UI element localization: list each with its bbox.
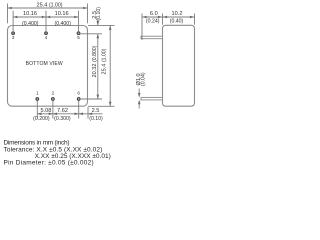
svg-text:6: 6	[77, 91, 80, 96]
dimension 10.16 arrows	[13, 16, 78, 19]
top edge right extension line	[88, 24, 115, 26]
pin 2 circle	[52, 98, 55, 101]
dimension 2.5 arrows	[97, 21, 100, 38]
pin5 row right extension line	[80, 33, 102, 35]
svg-text:10.2: 10.2	[172, 11, 183, 17]
pin 1 circle	[36, 98, 39, 101]
dimension 2.5 top right: upper tail	[97, 20, 99, 100]
dimension 20.32 arrows	[97, 95, 100, 99]
svg-text:(0.200): (0.200)	[33, 116, 50, 122]
side view top dims extension lines	[142, 14, 195, 41]
pin diameter dim line upper	[138, 89, 140, 109]
svg-text:20.32 (0.800): 20.32 (0.800)	[92, 45, 98, 77]
side view body	[163, 25, 195, 106]
svg-text:5.08: 5.08	[40, 108, 51, 114]
dimension 25.4 height dim line	[109, 26, 111, 107]
side view top dim line	[142, 16, 195, 18]
pin6 row right extension line	[81, 98, 102, 100]
bottom edge right extension line	[88, 105, 115, 107]
svg-text:(0.400): (0.400)	[54, 21, 71, 27]
pin 3 circle	[12, 32, 15, 35]
svg-text:2: 2	[52, 91, 55, 96]
svg-text:10.16: 10.16	[23, 11, 37, 17]
side view top dim arrows	[142, 16, 195, 19]
svg-text:(0.10): (0.10)	[96, 7, 102, 21]
svg-text:Pin Diameter: ±0.05 (±0.002): Pin Diameter: ±0.05 (±0.002)	[4, 160, 94, 167]
bottom dim arrows	[37, 113, 92, 116]
svg-text:BOTTOM VIEW: BOTTOM VIEW	[26, 61, 63, 67]
side view lower pin	[141, 97, 163, 100]
bottom dims extension lines	[37, 101, 88, 119]
svg-text:(0.10): (0.10)	[89, 116, 103, 122]
svg-text:(0.300): (0.300)	[54, 116, 71, 122]
pin 5 circle	[77, 32, 80, 35]
svg-text:(0.04): (0.04)	[140, 72, 146, 86]
svg-text:(0.40): (0.40)	[170, 18, 184, 24]
dimension 25.4 width: dim line	[8, 7, 88, 9]
svg-text:1: 1	[36, 91, 39, 96]
svg-text:(0.400): (0.400)	[22, 21, 39, 27]
svg-text:6.0: 6.0	[150, 11, 158, 17]
dimension 10.16 dim line	[13, 16, 78, 18]
svg-text:4: 4	[45, 35, 48, 40]
dimension 25.4 width: arrows	[8, 7, 88, 10]
svg-text:(0.24): (0.24)	[146, 18, 160, 24]
side view upper pin	[141, 36, 163, 39]
dimension 25.4 width: extension lines	[8, 4, 88, 24]
svg-text:25.4 (1.00): 25.4 (1.00)	[101, 48, 107, 74]
dimension 25.4 height arrows	[109, 26, 112, 107]
pin 6 circle	[77, 98, 80, 101]
svg-text:3: 3	[12, 35, 15, 40]
pin 4 circle	[45, 32, 48, 35]
bottom dim line	[37, 113, 102, 115]
svg-text:10.16: 10.16	[55, 11, 69, 17]
svg-text:7.62: 7.62	[57, 108, 68, 114]
pin pitch extension lines	[13, 11, 78, 35]
body outline bottom view	[8, 26, 88, 107]
svg-text:2.5: 2.5	[92, 108, 100, 114]
svg-text:5: 5	[77, 35, 80, 40]
pin diameter arrows	[138, 93, 141, 104]
svg-text:25.4 (1.00): 25.4 (1.00)	[36, 2, 62, 8]
